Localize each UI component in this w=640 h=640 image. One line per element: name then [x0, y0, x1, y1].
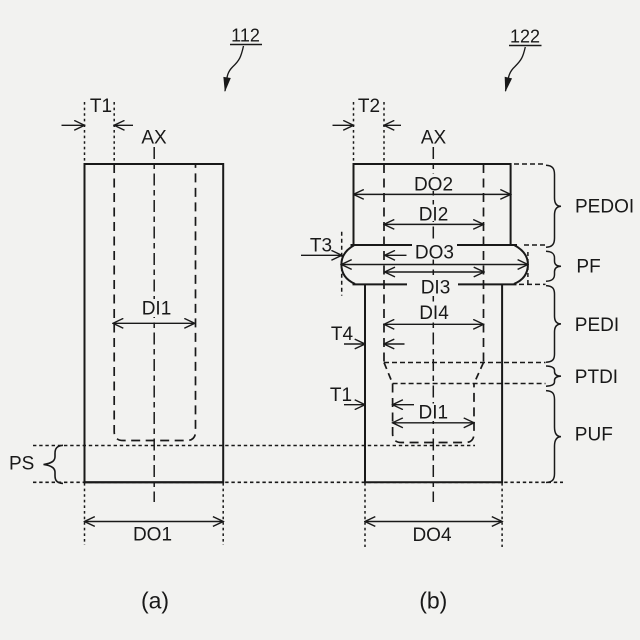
figure (b) : DO2 dimension arrow — [354, 193, 511, 195]
brace PF — [546, 251, 561, 281]
svg-text:PTDI: PTDI — [575, 367, 618, 388]
svg-text:(a): (a) — [141, 588, 169, 614]
brace PTDI — [546, 366, 561, 386]
label 122 underline — [509, 45, 542, 47]
figure (b) : flange tip witness left — [341, 232, 343, 296]
PS bottom boundary dotted line — [33, 481, 563, 483]
figure (b) : flange right bulge — [514, 245, 528, 284]
label DI1 (a) — [137, 299, 175, 320]
PS brace — [44, 445, 64, 483]
figure (b) : T2 witness line left — [353, 102, 355, 164]
region boundary dashes : flange top to brace — [524, 244, 546, 246]
figure (b) : tube 122 lower outline — [365, 284, 502, 482]
svg-text:T2: T2 — [358, 96, 380, 117]
svg-text:T3: T3 — [310, 236, 332, 257]
svg-text:DO4: DO4 — [412, 525, 452, 546]
figure (b) : T1 dimension arrows — [344, 404, 365, 406]
label DO4 — [411, 525, 454, 546]
svg-text:DO2: DO2 — [414, 174, 453, 195]
figure (b) : flange left bulge — [341, 245, 355, 284]
figure (a) : inner bore (dashed) — [114, 164, 195, 441]
svg-text:112: 112 — [231, 26, 260, 46]
figure (b) : DI1 dimension arrow — [393, 422, 474, 424]
svg-text:DI1: DI1 — [419, 402, 449, 423]
figure (b) : center axis line AX — [432, 147, 434, 502]
figure (b) : DO4 dimension arrow — [365, 521, 502, 523]
figure (a) : DI1 dimension arrow — [113, 322, 195, 324]
figure (a) : center axis line AX — [153, 147, 155, 502]
figure (b) : DI4 dimension arrow — [384, 323, 484, 325]
figure (b) : DO4 witness line right — [501, 483, 503, 547]
figure (b) : flange top edge — [351, 244, 518, 246]
figure (a) : tube 112 outline — [85, 164, 224, 482]
svg-text:PF: PF — [576, 257, 600, 278]
svg-text:DO3: DO3 — [415, 242, 454, 263]
PS top boundary dotted line — [33, 445, 475, 447]
svg-text:DI3: DI3 — [421, 277, 451, 298]
region boundary dashes : top edge to brace — [514, 163, 546, 165]
svg-text:PEDOI: PEDOI — [575, 197, 634, 218]
figure (b) : flange bottom edge — [353, 283, 517, 285]
label DO2 — [412, 174, 455, 195]
figure (b) : T2 witness line right — [383, 102, 385, 164]
figure (a) : T1 dimension arrows — [62, 124, 85, 126]
svg-text:T1: T1 — [330, 385, 352, 406]
figure (b) : flange tip witness right — [527, 252, 529, 285]
svg-text:T4: T4 — [331, 324, 354, 345]
label DO1 — [132, 525, 174, 546]
figure (a) : bottom edge solid over dots — [85, 481, 224, 483]
svg-text:DI4: DI4 — [419, 303, 449, 324]
figure (a) : DO1 witness line left — [84, 483, 86, 545]
figure (b) : DI3 dimension arrow — [385, 271, 484, 273]
label 112 underline — [230, 44, 262, 46]
svg-text:T1: T1 — [90, 96, 112, 117]
svg-text:122: 122 — [510, 27, 540, 47]
figure (b) : DO4 witness line left — [364, 483, 366, 547]
svg-text:(b): (b) — [419, 588, 447, 614]
region boundary dashes : PEDI/PTDI — [384, 362, 546, 364]
label DI1 (b) — [414, 402, 453, 423]
figure (b) : lower bore (dashed) — [393, 384, 474, 443]
svg-text:PEDI: PEDI — [575, 315, 619, 336]
label DO3 — [412, 242, 457, 263]
figure (a) : DO1 dimension arrow — [85, 521, 224, 523]
figure (a) : T1 witness line left — [84, 102, 86, 164]
figure (b) : DO3 dimension arrow — [341, 264, 528, 266]
figure (b) : bore taper (dashed) — [384, 363, 484, 384]
figure (b) : DI2 dimension arrow — [384, 223, 484, 225]
region boundary dashes : PTDI/PUF — [393, 383, 546, 385]
label DI3 — [407, 277, 458, 298]
svg-text:PS: PS — [9, 454, 34, 475]
figure (b) : T3 dimension arrows — [301, 254, 342, 256]
svg-text:DI2: DI2 — [419, 205, 449, 226]
region boundary dashes : flange bottom to brace — [519, 283, 546, 285]
brace PEDI — [546, 286, 561, 363]
label DI4 — [415, 303, 453, 324]
svg-text:PUF: PUF — [575, 425, 613, 446]
label DI2 — [415, 205, 453, 226]
figure (b) : T2 dimension arrows — [333, 124, 354, 126]
svg-text:DO1: DO1 — [133, 525, 172, 546]
brace PEDOI — [546, 165, 561, 247]
figure (b) : tube 122 upper outline — [354, 164, 511, 245]
svg-text:AX: AX — [141, 128, 167, 149]
figure (a) : DO1 witness line right — [222, 483, 224, 545]
figure (a) : T1 witness line right — [113, 102, 115, 164]
figure (b) : T4 dimension arrows — [344, 343, 365, 345]
brace PUF — [546, 391, 561, 483]
leader arrow from 112 — [225, 46, 244, 91]
figure (b) : upper bore (dashed) — [384, 164, 484, 363]
leader arrow from 122 — [506, 47, 526, 91]
svg-text:AX: AX — [421, 128, 447, 149]
svg-text:DI1: DI1 — [142, 299, 172, 320]
